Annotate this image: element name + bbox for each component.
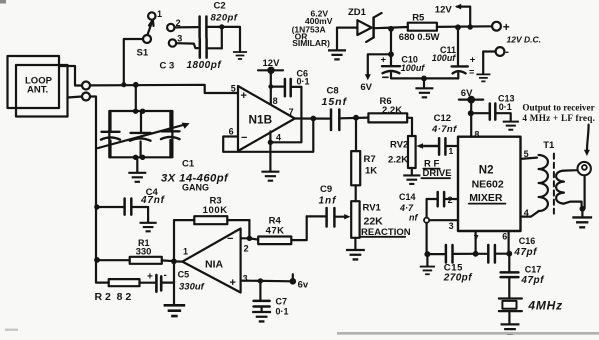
svg-text:47K: 47K: [266, 225, 285, 236]
svg-text:−: −: [241, 132, 247, 144]
svg-text:0·1: 0·1: [499, 102, 512, 112]
svg-text:=: =: [469, 67, 474, 77]
svg-text:100uf: 100uf: [401, 63, 426, 73]
svg-text:6v: 6v: [298, 280, 309, 291]
svg-text:7: 7: [289, 107, 294, 117]
svg-text:47nf: 47nf: [140, 195, 166, 206]
svg-text:C17: C17: [525, 264, 542, 274]
svg-text:100K: 100K: [203, 205, 228, 216]
svg-text:22K: 22K: [364, 216, 384, 228]
svg-text:C7: C7: [276, 297, 288, 307]
svg-text:2: 2: [448, 195, 453, 205]
svg-text:12V D.C.: 12V D.C.: [507, 35, 542, 45]
svg-text:3: 3: [243, 274, 248, 284]
svg-text:C5: C5: [178, 270, 190, 280]
svg-text:2: 2: [176, 18, 181, 28]
svg-text:NE602: NE602: [472, 179, 504, 191]
svg-text:330: 330: [136, 246, 152, 257]
svg-text:C1: C1: [182, 159, 195, 170]
svg-text:1nf: 1nf: [319, 196, 338, 207]
svg-text:270pf: 270pf: [443, 272, 473, 283]
svg-text:4: 4: [524, 208, 529, 218]
svg-text:1: 1: [183, 247, 188, 257]
svg-text:R7: R7: [364, 154, 376, 165]
svg-text:5: 5: [231, 84, 236, 94]
svg-text:4 MHz + LF freq.: 4 MHz + LF freq.: [522, 113, 595, 123]
svg-text:0·1: 0·1: [297, 77, 310, 87]
svg-text:2.2K: 2.2K: [388, 155, 408, 166]
svg-text:47pf: 47pf: [520, 275, 545, 286]
svg-text:nf: nf: [409, 212, 418, 222]
svg-text:R 2 8 2: R 2 8 2: [95, 291, 132, 303]
svg-text:C2: C2: [214, 1, 226, 12]
svg-text:15nf: 15nf: [322, 96, 348, 108]
svg-text:ANT.: ANT.: [27, 85, 48, 96]
svg-text:680 0.5W: 680 0.5W: [399, 32, 440, 43]
svg-text:R5: R5: [412, 13, 425, 24]
svg-text:1K: 1K: [365, 166, 377, 177]
svg-text:+: +: [470, 55, 476, 66]
svg-text:3: 3: [449, 221, 454, 231]
svg-text:4MHz: 4MHz: [527, 299, 563, 313]
svg-text:C9: C9: [320, 184, 332, 195]
svg-text:6V: 6V: [461, 88, 473, 99]
svg-text:+: +: [241, 90, 247, 102]
svg-text:1: 1: [157, 9, 162, 19]
svg-text:2: 2: [244, 244, 249, 254]
svg-text:4: 4: [276, 133, 281, 143]
svg-text:+: +: [147, 272, 153, 283]
svg-text:Output to receiver: Output to receiver: [522, 102, 594, 112]
svg-text:S1: S1: [137, 48, 149, 59]
svg-text:4·7nf: 4·7nf: [431, 124, 457, 135]
svg-text:−: −: [227, 233, 233, 245]
svg-text:8: 8: [474, 130, 479, 140]
svg-text:N2: N2: [479, 165, 494, 177]
svg-text:C16: C16: [519, 236, 536, 246]
svg-text:6: 6: [502, 232, 507, 242]
svg-text:+: +: [503, 20, 510, 34]
svg-text:RV2: RV2: [390, 140, 408, 151]
svg-text:8: 8: [273, 96, 278, 106]
svg-text:0·1: 0·1: [276, 307, 289, 317]
svg-text:5: 5: [524, 149, 529, 159]
svg-text:T1: T1: [543, 140, 555, 151]
svg-text:+: +: [381, 55, 387, 66]
svg-text:-: -: [164, 270, 167, 281]
svg-text:REACTION: REACTION: [361, 227, 411, 238]
svg-text:N1B: N1B: [249, 113, 273, 127]
svg-text:1800pf: 1800pf: [187, 60, 223, 71]
svg-text:6: 6: [229, 127, 234, 137]
svg-text:+: +: [230, 277, 236, 289]
svg-text:DRIVE: DRIVE: [423, 168, 452, 179]
svg-text:-: -: [505, 46, 509, 58]
svg-text:MIXER: MIXER: [469, 192, 503, 204]
svg-text:12V: 12V: [435, 5, 453, 16]
svg-text:RV1: RV1: [363, 203, 382, 214]
svg-text:820pf: 820pf: [211, 13, 238, 24]
svg-text:SIMILAR): SIMILAR): [292, 38, 330, 48]
svg-text:4·7: 4·7: [399, 203, 414, 213]
svg-text:7: 7: [474, 233, 479, 243]
svg-text:ZD1: ZD1: [348, 7, 367, 18]
svg-text:6V: 6V: [360, 82, 372, 93]
svg-text:47pf: 47pf: [513, 247, 538, 258]
svg-text:C12: C12: [434, 113, 451, 124]
svg-text:12V: 12V: [263, 58, 281, 69]
svg-text:C14: C14: [399, 192, 416, 202]
svg-text:1: 1: [449, 146, 454, 156]
svg-text:C 3: C 3: [160, 61, 175, 72]
svg-text:NIA: NIA: [205, 259, 224, 271]
svg-text:100uf: 100uf: [432, 53, 457, 63]
svg-text:GANG: GANG: [182, 183, 209, 193]
svg-text:3: 3: [177, 34, 182, 44]
svg-text:C8: C8: [327, 86, 339, 97]
svg-text:2.2K: 2.2K: [382, 105, 402, 116]
svg-text:330uf: 330uf: [179, 282, 205, 293]
